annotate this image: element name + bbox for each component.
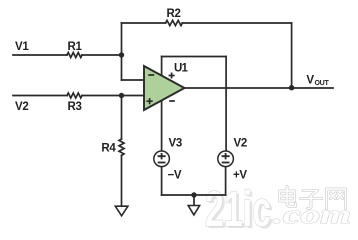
svg-text:R3: R3 [67,101,81,113]
svg-text:U1: U1 [174,63,189,75]
svg-text:21ic: 21ic [205,181,271,232]
svg-text:R1: R1 [67,41,82,53]
svg-text:V2: V2 [15,101,28,113]
svg-text:OUT: OUT [315,80,330,87]
svg-text:V: V [306,75,314,87]
svg-text:V2: V2 [234,137,247,149]
svg-text:.com: .com [273,200,351,229]
svg-text:+V: +V [233,169,247,181]
svg-text:R4: R4 [101,143,116,155]
svg-text:V3: V3 [169,137,182,149]
svg-text:−V: −V [168,169,182,181]
svg-text:R2: R2 [166,8,180,20]
svg-text:V1: V1 [15,41,29,53]
